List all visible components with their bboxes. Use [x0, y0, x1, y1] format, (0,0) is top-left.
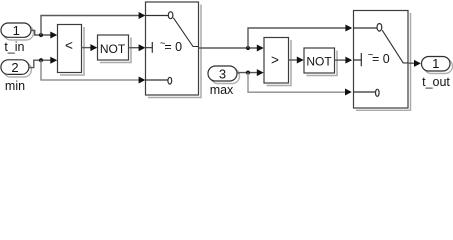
- switch block SW1: [146, 2, 202, 98]
- svg-text:NOT: NOT: [306, 55, 332, 69]
- relational operator block GT: [264, 38, 291, 86]
- arrowhead into NOT1: [90, 44, 97, 51]
- logical operator block NOT2: [304, 48, 337, 76]
- node junction min branch: [39, 58, 43, 62]
- arrowhead into NOT2: [297, 57, 304, 64]
- svg-text:max: max: [210, 83, 234, 97]
- wire t_in to LT input1: [31, 30, 51, 35]
- outport 1 t_out: [422, 56, 453, 89]
- svg-text:t_out: t_out: [422, 75, 450, 89]
- SW1 switch diagonal: [173, 18, 198, 47]
- arrowhead into LT input2: [50, 57, 57, 64]
- arrowhead into SW2 input3: [345, 89, 352, 96]
- wire SW1 output to GT input1: [199, 47, 258, 49]
- arrowhead into GT input2: [257, 69, 264, 76]
- svg-text:3: 3: [219, 67, 226, 82]
- SW2 switch diagonal: [382, 30, 408, 63]
- SW2 input3 stub + circle: [354, 91, 376, 93]
- inport 1 t_in: [1, 23, 34, 54]
- wire NOT1 output to SW1 control: [129, 47, 140, 49]
- svg-text:= 0: = 0: [372, 52, 390, 66]
- arrowhead into SW1 control: [139, 44, 146, 51]
- node junction t_in branch: [39, 33, 43, 37]
- arrowhead into GT input1: [257, 45, 264, 52]
- wire max to GT input2: [237, 72, 258, 74]
- arrowhead into LT input1: [50, 32, 57, 39]
- svg-text:1: 1: [13, 23, 20, 38]
- SW2 input1 stub + circle: [354, 27, 378, 29]
- svg-text:NOT: NOT: [100, 42, 126, 56]
- wire SW1 output branch up to SW2 input1 rail: [248, 28, 346, 48]
- svg-text:t_in: t_in: [4, 40, 24, 54]
- svg-text:2: 2: [11, 60, 18, 75]
- SW1 input3 stub + circle: [146, 79, 168, 81]
- wire min branch down to SW1 input3: [41, 60, 140, 80]
- inport 3 max: [208, 66, 240, 97]
- arrowhead into SW1 input1: [139, 12, 146, 19]
- logical operator block NOT1: [98, 35, 132, 63]
- wire SW2 output to outport: [408, 62, 415, 64]
- relational operator block LT: [58, 25, 85, 76]
- svg-text:= 0: = 0: [164, 40, 182, 54]
- SW2 control stub + tick: [354, 53, 362, 66]
- arrowhead into SW2 control: [345, 57, 352, 64]
- SW1 control stub + tick: [146, 42, 153, 53]
- SW1 input1 stub + circle: [146, 15, 169, 17]
- node junction max branch: [246, 71, 250, 75]
- arrowhead into SW2 input1: [345, 25, 352, 32]
- wire t_in branch up to SW1 input1 rail: [41, 16, 140, 36]
- arrowhead into SW1 input3: [139, 77, 146, 84]
- svg-text:1: 1: [432, 56, 439, 71]
- wire min to LT input2: [29, 60, 51, 67]
- wire GT output to NOT2: [289, 59, 298, 61]
- svg-text:min: min: [5, 79, 25, 93]
- wire NOT2 output to SW2 control: [335, 59, 347, 61]
- inport 2 min: [1, 60, 32, 93]
- switch block SW2: [354, 11, 411, 111]
- node junction SW1 output branch: [246, 46, 250, 50]
- svg-text:>: >: [271, 53, 279, 68]
- wire max branch down to SW2 input3: [248, 73, 346, 93]
- arrowhead into outport t_out: [414, 60, 421, 67]
- svg-text:<: <: [65, 38, 73, 53]
- wire LT output to NOT1: [82, 47, 92, 49]
